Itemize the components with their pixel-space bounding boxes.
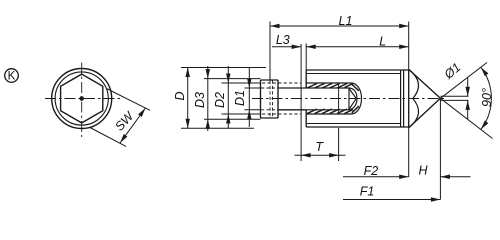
view label K circle — [5, 69, 19, 83]
L1 arrow right — [399, 24, 409, 29]
svg-text:D1: D1 — [233, 90, 247, 106]
pin neck — [278, 88, 306, 110]
cone angle extension lower — [440, 98, 492, 138]
hidden bore lines left of body — [262, 83, 301, 114]
shared extension line L3 T — [300, 44, 302, 161]
spring coils bottom band — [307, 106, 359, 113]
body end verticals — [401, 70, 404, 127]
spring band inner edges / pin shaft — [306, 88, 349, 110]
D3 extension lines — [204, 79, 261, 120]
D3 dimension line — [207, 66, 209, 131]
thrust pin collar — [261, 80, 279, 118]
F2 dimension line — [343, 176, 409, 178]
SW dimension line — [120, 108, 146, 143]
T dimension line — [295, 154, 346, 156]
H dimension line right — [440, 176, 470, 178]
D arrow top — [185, 68, 190, 78]
L1 arrow left — [270, 24, 280, 29]
spring coils top band — [307, 83, 359, 90]
collar hidden vertical lines — [270, 81, 273, 118]
main view centerline — [252, 98, 447, 100]
hex facet arc lower — [409, 99, 419, 128]
D dimension line — [187, 68, 189, 129]
svg-text:90°: 90° — [480, 88, 494, 107]
F1 dimension line — [343, 199, 440, 201]
svg-text:L1: L1 — [339, 14, 353, 28]
thread root lines — [307, 74, 401, 124]
L1 right extension line — [408, 22, 410, 178]
H right extension line — [439, 98, 441, 199]
diameter 1 arrow upper — [465, 87, 470, 97]
SW arrow lower — [120, 134, 127, 143]
L1 dimension line — [270, 25, 409, 27]
D3 arrow top — [206, 69, 211, 79]
svg-text:L: L — [379, 34, 386, 48]
D arrow bottom — [185, 119, 190, 129]
cone outline — [409, 69, 441, 127]
D1 extension lines — [245, 88, 261, 110]
hex facet arc upper — [409, 69, 419, 98]
D2 arrow top — [226, 74, 231, 84]
svg-text:F1: F1 — [360, 185, 375, 199]
arc arrow upper — [481, 67, 489, 76]
hex view center dot — [79, 96, 84, 101]
bore outline with round nose — [306, 83, 361, 114]
90 degree arc — [481, 67, 492, 129]
L3 arrow — [292, 44, 302, 49]
pin nose cone — [349, 88, 356, 110]
L1 left extension line — [269, 22, 271, 81]
D2 dimension line — [227, 66, 229, 129]
hex socket hexagon — [61, 74, 103, 123]
tip flat lines for diameter 1 — [440, 96, 468, 100]
D2 arrow bottom — [226, 114, 231, 124]
SW upper extension line — [107, 89, 151, 111]
collar hidden pin lines — [261, 88, 278, 110]
svg-text:T: T — [315, 140, 324, 154]
svg-text:L3: L3 — [276, 33, 290, 47]
D top extension line — [181, 67, 266, 69]
L dimension line — [306, 46, 409, 48]
bore nose inner arc — [349, 88, 357, 110]
L arrow left — [306, 44, 316, 49]
L3 dimension line — [272, 46, 301, 48]
arc arrow lower — [481, 121, 489, 130]
H arrow — [440, 174, 450, 179]
svg-text:K: K — [8, 71, 16, 83]
hex view inner circle — [55, 72, 108, 125]
D bottom extension line — [181, 127, 254, 129]
cone angle extension upper — [440, 63, 487, 99]
svg-text:F2: F2 — [364, 164, 379, 178]
svg-text:H: H — [418, 164, 428, 178]
D1 dimension line — [248, 67, 250, 127]
diameter 1 arrow lower — [465, 100, 470, 110]
L left extension line — [305, 44, 307, 71]
svg-text:D3: D3 — [193, 92, 207, 108]
SW lower extension line — [90, 128, 126, 147]
F2 arrow — [399, 174, 409, 179]
hex view outer circle — [52, 69, 112, 129]
L arrow right — [399, 44, 409, 49]
diameter 1 dimension line — [467, 77, 469, 119]
hex view horizontal centerline — [45, 98, 120, 100]
bore depth line — [338, 83, 340, 114]
hex view vertical centerline — [81, 63, 83, 138]
D1 arrow top — [247, 79, 252, 89]
body left face — [305, 70, 307, 127]
D1 arrow bottom — [247, 110, 252, 120]
D3 arrow bottom — [206, 119, 211, 129]
T arrow right — [329, 153, 339, 158]
F1 arrow — [431, 197, 441, 202]
T right extension line — [338, 128, 340, 161]
D2 extension lines — [222, 83, 261, 114]
svg-text:D: D — [173, 91, 187, 100]
SW arrow upper — [138, 108, 145, 117]
T arrow left — [301, 153, 311, 158]
cone piece base — [408, 69, 410, 127]
body outline top/bottom — [306, 70, 409, 127]
svg-text:D2: D2 — [213, 92, 227, 108]
